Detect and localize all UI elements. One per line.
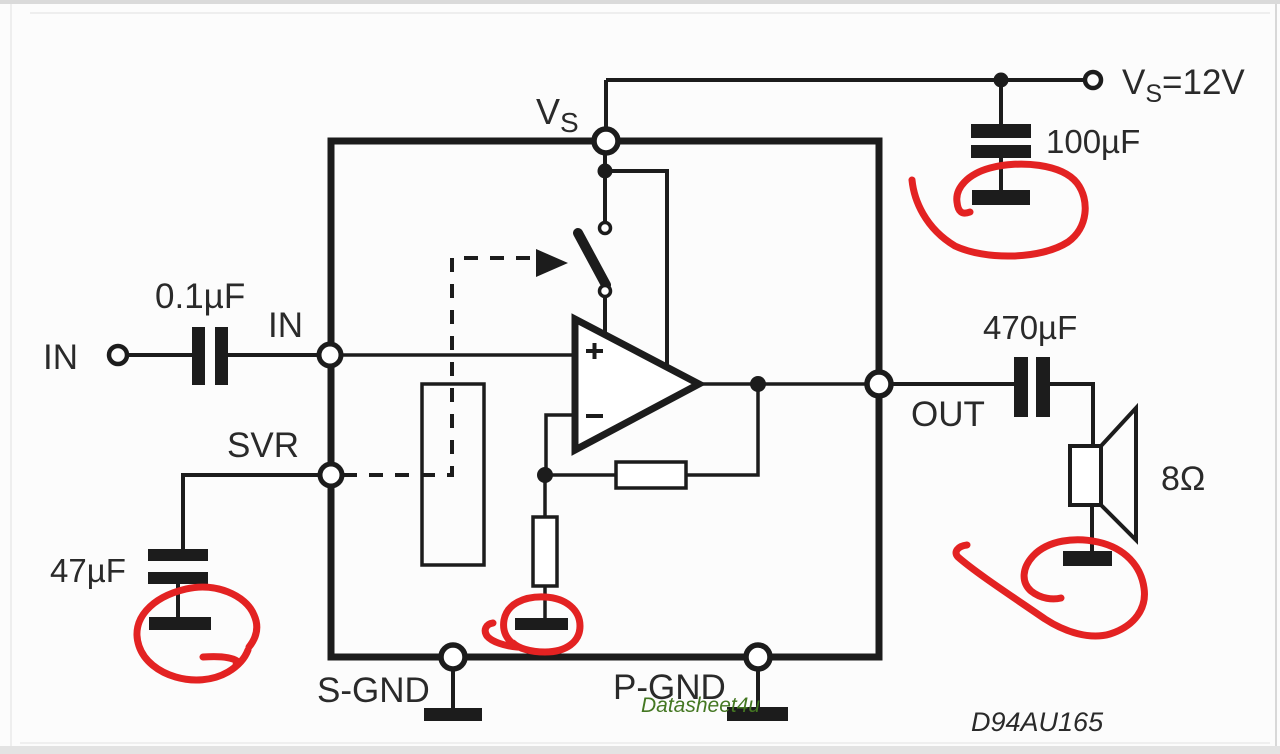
wire op-amp output [699, 382, 868, 386]
pin SVR [320, 464, 342, 486]
svg-text:8Ω: 8Ω [1161, 460, 1205, 498]
resistor R1 feedback [616, 462, 686, 488]
block internal rectangle [422, 384, 484, 565]
switch SW1 top contact [600, 223, 611, 234]
node supply junction [994, 73, 1009, 88]
pin S-GND [441, 645, 465, 669]
bottom gray band [0, 746, 1280, 754]
faint right edge line [1275, 4, 1277, 746]
red marker circle around internal ground [485, 597, 580, 652]
IC box U1 [331, 141, 879, 657]
capacitor C2 47uF plates [148, 549, 208, 561]
speaker LS1 [1070, 446, 1101, 505]
wire S-GND to ground [451, 669, 455, 710]
wire 47uF to ground [176, 584, 180, 619]
capacitor C3 100uF plates [971, 124, 1031, 138]
op-amp minus sign [586, 414, 603, 418]
wire feedback right [686, 384, 758, 475]
red marker circle around 47uF ground [137, 587, 257, 680]
ground 100uF [972, 190, 1030, 205]
svg-text:Datasheet4u: Datasheet4u [641, 694, 760, 717]
wire 100uF lead [999, 80, 1003, 126]
node switch feed dot [598, 164, 613, 179]
top gray band [0, 0, 1280, 4]
wire 470uF to speaker [1050, 384, 1093, 446]
wire feedback left [546, 473, 616, 477]
terminal Vs=12V [1085, 72, 1101, 88]
ground internal [515, 618, 568, 630]
svg-text:100µF: 100µF [1046, 123, 1140, 160]
red marker circle around speaker ground [956, 540, 1144, 636]
pin Vs [594, 129, 618, 153]
wire IN terminal to cap [127, 353, 192, 357]
wire SVR to 47uF [183, 475, 320, 551]
svg-text:0.1µF: 0.1µF [155, 277, 245, 316]
switch SW1 lever [578, 233, 606, 285]
op-amp plus sign [586, 349, 603, 353]
wire dot to op-amp top [605, 171, 667, 367]
wire speaker to ground [1090, 505, 1094, 553]
faint scan line top [30, 12, 1270, 14]
capacitor C4 470uF [1014, 357, 1028, 417]
resistor R2 to ground [543, 475, 547, 517]
wire IN pin to op-amp [341, 353, 575, 357]
svg-text:D94AU165: D94AU165 [971, 707, 1104, 737]
node feedback dot [537, 467, 553, 483]
svg-text:S-GND: S-GND [317, 671, 430, 710]
svg-text:IN: IN [268, 306, 303, 345]
svg-text:IN: IN [43, 338, 78, 377]
wire switch to op-amp [603, 296, 607, 336]
pin IN [319, 344, 341, 366]
svg-text:SVR: SVR [227, 426, 299, 465]
wire supply rail top [606, 78, 1084, 82]
pin P-GND [746, 645, 770, 669]
svg-text:VS=12V: VS=12V [1122, 63, 1245, 108]
svg-text:470µF: 470µF [983, 309, 1077, 346]
faint bottom line [20, 742, 1270, 744]
wire Vs pin up to supply rail [604, 80, 608, 139]
op-amp A1 [575, 319, 699, 450]
faint left edge line [10, 4, 12, 746]
ground P-GND [727, 707, 788, 721]
wire inverting input [546, 415, 575, 475]
wire cap to IN pin [228, 353, 320, 357]
dashed control line from SVR [343, 258, 538, 475]
wire 100uF to ground [999, 158, 1003, 192]
wire P-GND to ground [756, 669, 760, 709]
arrowhead control line [536, 249, 568, 277]
wire dot down to switch [603, 153, 607, 223]
ground 47uF [149, 617, 211, 630]
svg-text:OUT: OUT [911, 395, 985, 434]
node output junction [750, 376, 766, 392]
wire OUT to 470uF [891, 382, 1014, 386]
red marker circle around 100uF ground [912, 164, 1085, 256]
terminal IN left [109, 346, 127, 364]
pin OUT [867, 372, 891, 396]
capacitor C1 0.1uF [192, 327, 205, 385]
ground S-GND [424, 708, 482, 721]
switch SW1 bottom contact [600, 286, 611, 297]
svg-text:47µF: 47µF [50, 552, 126, 589]
wire R2 to ground [543, 586, 547, 620]
ground speaker [1063, 551, 1112, 566]
